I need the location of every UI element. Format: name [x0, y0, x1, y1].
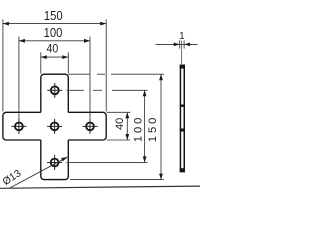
arrowheads dim 100 vertical — [143, 90, 147, 162]
side view centerline — [181, 41, 183, 64]
svg-text:100: 100 — [44, 25, 63, 40]
dimension 150 vertical right — [68, 74, 164, 179]
leader line for Ø13 — [10, 157, 67, 188]
hole centerline crosses — [11, 83, 97, 170]
svg-text:1: 1 — [179, 31, 185, 42]
dimension 150 horizontal — [3, 19, 106, 111]
svg-text:100: 100 — [132, 115, 144, 142]
dimension 100 horizontal — [19, 37, 90, 121]
hole left — [15, 123, 23, 131]
arrowheads dim 150 vertical — [159, 74, 163, 179]
cross-shaped plate outline — [3, 74, 106, 179]
svg-text:40: 40 — [47, 42, 59, 56]
arrowheads dim 40 vertical — [125, 112, 129, 140]
dimension 100 vertical right — [67, 90, 148, 162]
svg-text:150: 150 — [147, 115, 159, 142]
arrowheads dim 100 horizontal — [19, 39, 90, 43]
hole center — [51, 123, 59, 131]
bottom rule — [0, 186, 200, 188]
dimension 40 horizontal — [41, 52, 69, 73]
thickness dimension — [156, 40, 198, 48]
svg-text:40: 40 — [114, 118, 126, 130]
dimension 40 vertical right — [107, 112, 131, 140]
hole top — [51, 86, 59, 94]
svg-text:150: 150 — [44, 8, 63, 23]
arrowheads dim 150 horizontal — [3, 22, 106, 26]
side view plate — [180, 65, 185, 173]
hole right — [86, 123, 94, 131]
leader arrowhead — [61, 157, 67, 161]
hole bottom — [51, 159, 59, 167]
arrowheads dim 40 horizontal — [41, 55, 69, 59]
arrowheads thickness dimension — [174, 43, 190, 47]
svg-text:Ø13: Ø13 — [1, 168, 24, 188]
